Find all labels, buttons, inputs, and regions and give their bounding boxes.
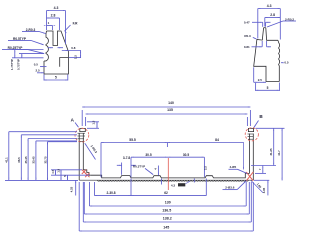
svg-text:41.1: 41.1	[5, 157, 9, 163]
svg-text:0.5: 0.5	[34, 62, 39, 66]
svg-text:130: 130	[165, 201, 171, 205]
svg-text:0.75TYP: 0.75TYP	[17, 59, 21, 70]
svg-text:4-Ø5: 4-Ø5	[229, 165, 236, 169]
svg-text:145: 145	[163, 226, 169, 230]
svg-text:3-7.8: 3-7.8	[123, 156, 130, 160]
svg-text:0.5: 0.5	[284, 61, 289, 65]
svg-text:0.8: 0.8	[71, 46, 76, 50]
svg-text:1.5: 1.5	[73, 55, 77, 59]
svg-text:30.5: 30.5	[183, 153, 189, 157]
svg-text:33.45: 33.45	[32, 156, 36, 163]
svg-text:2.5: 2.5	[36, 69, 41, 73]
svg-text:0.47: 0.47	[244, 20, 250, 24]
svg-text:32.75: 32.75	[43, 156, 47, 163]
svg-text:R0.3TYP: R0.3TYP	[133, 164, 145, 168]
svg-text:38.5: 38.5	[17, 157, 21, 163]
svg-text:2.8: 2.8	[51, 14, 56, 18]
svg-text:2.8: 2.8	[270, 13, 275, 17]
svg-text:30.5: 30.5	[145, 153, 151, 157]
svg-text:62: 62	[164, 191, 168, 195]
svg-text:138.2: 138.2	[163, 217, 172, 221]
svg-text:5: 5	[267, 86, 269, 90]
svg-text:R0.3: R0.3	[244, 34, 251, 38]
svg-text:55.5: 55.5	[129, 138, 136, 142]
svg-text:41.7: 41.7	[277, 150, 281, 156]
svg-text:2.5: 2.5	[258, 78, 263, 82]
svg-text:1.5: 1.5	[91, 120, 95, 124]
svg-text:4.3: 4.3	[171, 183, 176, 187]
svg-text:136.5: 136.5	[162, 209, 171, 213]
svg-text:3.95: 3.95	[262, 187, 266, 193]
svg-text:135: 135	[167, 108, 173, 112]
svg-text:5: 5	[55, 76, 57, 80]
svg-text:31.25: 31.25	[269, 148, 273, 155]
svg-text:2-Ø3.6: 2-Ø3.6	[225, 186, 235, 190]
svg-text:4.3: 4.3	[267, 4, 272, 8]
svg-text:2.5: 2.5	[203, 166, 207, 170]
svg-text:1.75TYP: 1.75TYP	[10, 59, 14, 70]
svg-text:35.45: 35.45	[24, 156, 28, 163]
svg-text:84: 84	[215, 138, 219, 142]
svg-text:140: 140	[168, 101, 174, 105]
svg-text:4.25: 4.25	[70, 186, 74, 192]
svg-text:2-30.8: 2-30.8	[106, 191, 115, 195]
svg-text:4.3: 4.3	[54, 6, 59, 10]
svg-text:F.R: F.R	[73, 22, 78, 26]
svg-text:0.81: 0.81	[244, 45, 250, 49]
